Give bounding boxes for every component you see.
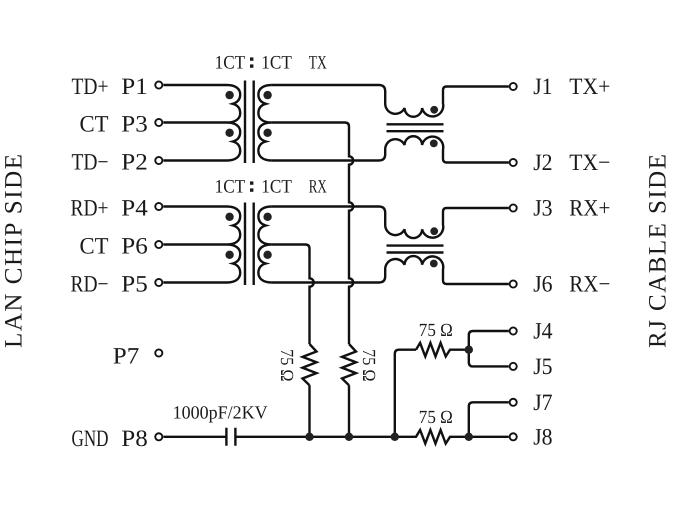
terminal pin J4 <box>510 327 517 334</box>
svg-text:TX+: TX+ <box>569 74 610 100</box>
svg-text:GND: GND <box>72 426 109 452</box>
svg-text:J5: J5 <box>533 354 552 380</box>
choke L1 polarity dots <box>430 106 438 114</box>
svg-text:J2: J2 <box>533 150 552 176</box>
wire R2 to GND rail <box>348 385 350 437</box>
svg-text:75 Ω: 75 Ω <box>419 408 453 428</box>
wire T2 secondary bottom + choke L2 bottom winding + wire to J6 <box>272 256 509 284</box>
wire T2 secondary center-tap down (with hop) to resistor R1 <box>272 245 314 345</box>
resistor R1 (75 ohm vertical) <box>303 344 317 385</box>
terminal pin P2 <box>155 157 162 164</box>
terminal pin J8 <box>510 433 517 440</box>
svg-text:LAN CHIP SIDE: LAN CHIP SIDE <box>1 154 28 348</box>
svg-text:J1: J1 <box>533 74 552 100</box>
terminal pin P1 <box>155 81 162 88</box>
transformer T1 core <box>245 81 254 164</box>
svg-text:P1: P1 <box>121 74 148 100</box>
svg-text:TX: TX <box>309 52 327 73</box>
svg-text:J6: J6 <box>533 272 553 298</box>
wire junction to J4 <box>469 331 509 350</box>
terminal pin J2 <box>510 159 517 166</box>
choke L1 core <box>387 124 444 131</box>
wire T2 secondary top + common-mode choke L2 top winding + wire to J3 <box>272 207 509 239</box>
choke L2 core <box>387 246 444 253</box>
svg-text:1000pF/2KV: 1000pF/2KV <box>173 404 269 424</box>
svg-text:P2: P2 <box>121 150 148 176</box>
svg-text:TX−: TX− <box>569 150 610 176</box>
terminal pin J7 <box>510 399 517 406</box>
svg-text:P6: P6 <box>121 234 148 260</box>
capacitor C1 plates <box>226 428 235 446</box>
wire T1 secondary top + common-mode choke L1 top winding + wire to J1 <box>272 85 509 117</box>
svg-text:J3: J3 <box>533 196 552 222</box>
junction R4/J7/J8 <box>465 433 473 441</box>
svg-text:P7: P7 <box>113 344 140 370</box>
terminal pin P5 <box>155 279 162 286</box>
svg-text:J4: J4 <box>533 319 553 345</box>
terminal pin J5 <box>510 363 517 370</box>
svg-text:1CT: 1CT <box>261 52 292 73</box>
terminal pin J6 <box>510 280 517 287</box>
transformer T1 polarity dots <box>225 91 233 99</box>
wire T1 secondary center-tap down (with hops) to resistor R2 <box>272 123 354 345</box>
svg-text:RD+: RD+ <box>71 196 109 222</box>
svg-text:CT: CT <box>80 234 109 260</box>
terminal pin P7 <box>155 349 162 356</box>
resistor R3 (75 ohm horizontal) <box>416 343 469 357</box>
terminal pin P4 <box>155 203 162 210</box>
transformer T1 secondary winding <box>258 85 271 161</box>
GND rail from C1 through R4 to J8 <box>235 430 508 444</box>
svg-text:P4: P4 <box>121 196 148 222</box>
svg-text:75 Ω: 75 Ω <box>358 349 378 382</box>
transformer T2 secondary winding <box>258 207 271 283</box>
svg-text:RX−: RX− <box>569 272 610 298</box>
svg-text:1CT: 1CT <box>261 176 292 197</box>
junction R3/J4/J5 <box>465 346 473 354</box>
wire junction to J5 <box>469 350 509 367</box>
terminal pin J1 <box>510 83 517 90</box>
wire GND rail up to resistor R3 <box>395 350 416 437</box>
svg-text:J8: J8 <box>533 424 552 450</box>
wire P8 to capacitor C1 <box>163 436 226 438</box>
wire junction to J7 <box>469 402 509 437</box>
transformer T1 primary winding (P1/P3/P2) <box>163 85 240 161</box>
transformer T2 primary winding (P4/P6/P5) <box>163 207 240 283</box>
svg-text:1CT: 1CT <box>215 176 246 197</box>
terminal pin P3 <box>155 119 162 126</box>
wire R1 to GND rail <box>308 385 310 437</box>
svg-text:RJ CABLE SIDE: RJ CABLE SIDE <box>645 154 672 348</box>
svg-text:75 Ω: 75 Ω <box>419 321 453 341</box>
svg-text:75 Ω: 75 Ω <box>276 349 296 382</box>
svg-text:1CT: 1CT <box>215 52 246 73</box>
transformer T2 core <box>245 203 254 286</box>
svg-text:RX+: RX+ <box>569 196 610 222</box>
resistor R2 (75 ohm vertical) <box>342 344 356 385</box>
choke L2 polarity dots <box>430 227 438 235</box>
svg-text:J7: J7 <box>533 390 553 416</box>
terminal pin P8 <box>155 433 162 440</box>
svg-text:TD−: TD− <box>72 150 109 176</box>
svg-text:RX: RX <box>309 176 327 197</box>
junction R2/GND <box>345 433 353 441</box>
terminal pin J3 <box>510 204 517 211</box>
terminal pin P6 <box>155 241 162 248</box>
svg-text:P5: P5 <box>121 272 148 298</box>
junction R3/GND <box>391 433 399 441</box>
svg-text:TD+: TD+ <box>72 74 109 100</box>
transformer T2 polarity dots <box>225 213 233 221</box>
svg-text:CT: CT <box>80 112 109 138</box>
wire T1 secondary bottom + choke L1 bottom winding + wire to J2 <box>272 136 509 162</box>
junction R1/GND <box>305 433 313 441</box>
svg-text:RD−: RD− <box>71 272 109 298</box>
svg-text:P3: P3 <box>121 112 148 138</box>
svg-text:P8: P8 <box>121 426 148 452</box>
